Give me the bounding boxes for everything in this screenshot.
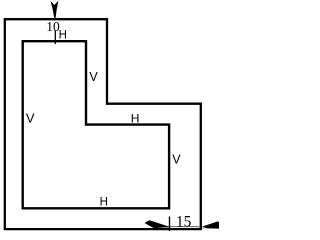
svg-text:V: V — [172, 153, 181, 167]
svg-text:H: H — [131, 111, 140, 125]
svg-text:V: V — [89, 70, 98, 84]
svg-text:V: V — [26, 111, 35, 126]
svg-text:H: H — [100, 196, 108, 208]
svg-text:15: 15 — [176, 213, 192, 230]
svg-text:H: H — [59, 30, 67, 42]
